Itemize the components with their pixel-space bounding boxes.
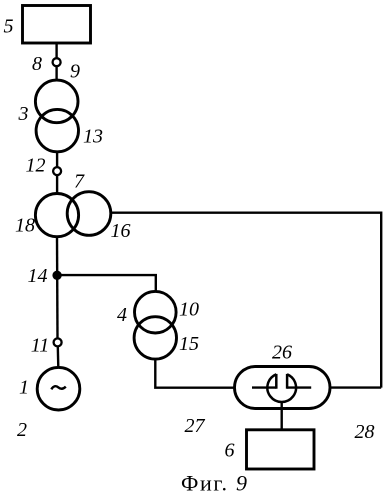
svg-text:4: 4 xyxy=(117,304,127,326)
svg-text:Фиг.: Фиг. xyxy=(181,471,229,496)
arrester electrode bar left xyxy=(275,374,278,389)
transformer winding 13 xyxy=(36,109,78,151)
arrester 26 envelope xyxy=(235,367,331,409)
svg-text:26: 26 xyxy=(272,342,292,364)
svg-text:8: 8 xyxy=(32,53,42,75)
transformer winding 15 xyxy=(134,317,176,359)
svg-text:18: 18 xyxy=(15,215,35,237)
svg-text:14: 14 xyxy=(28,265,48,287)
svg-text:15: 15 xyxy=(179,333,199,355)
wire xyxy=(155,359,234,388)
svg-text:16: 16 xyxy=(111,220,131,242)
wire xyxy=(55,66,57,80)
wire xyxy=(55,43,57,58)
isolator node 8-9 xyxy=(53,58,61,66)
svg-text:7: 7 xyxy=(74,171,85,193)
svg-text:10: 10 xyxy=(179,299,199,321)
wire xyxy=(56,237,59,339)
wire xyxy=(56,175,58,194)
svg-text:2: 2 xyxy=(17,419,27,441)
svg-text:27: 27 xyxy=(185,415,206,437)
AC source 1 xyxy=(37,367,80,410)
svg-text:6: 6 xyxy=(225,440,235,462)
svg-text:3: 3 xyxy=(18,103,29,125)
svg-text:13: 13 xyxy=(83,126,103,148)
svg-text:12: 12 xyxy=(26,155,46,177)
transformer winding 18 xyxy=(35,194,78,237)
isolator node 11 xyxy=(54,338,62,346)
svg-text:9: 9 xyxy=(236,471,247,496)
arrester electrode bar right xyxy=(286,374,289,389)
block 6 xyxy=(247,430,315,469)
svg-text:1: 1 xyxy=(19,377,29,399)
transformer winding 3 xyxy=(35,80,78,123)
svg-text:9: 9 xyxy=(70,61,80,83)
svg-text:28: 28 xyxy=(355,421,375,443)
arrester stem to block 6 xyxy=(281,402,283,430)
svg-text:11: 11 xyxy=(31,335,50,357)
wire xyxy=(57,275,156,292)
transformer winding 4-10 xyxy=(135,291,177,333)
wire xyxy=(57,346,60,367)
junction node 14 xyxy=(53,272,60,279)
transformer winding 16 xyxy=(67,192,111,236)
svg-text:5: 5 xyxy=(4,16,14,38)
isolator node 12 xyxy=(53,167,61,175)
arrester electrode lead left xyxy=(252,386,276,388)
block 5 xyxy=(23,6,91,44)
arrester bulb arc xyxy=(267,374,296,402)
wire xyxy=(56,152,58,167)
arrester electrode lead right xyxy=(287,386,311,388)
wire xyxy=(330,386,381,388)
wire 28 run from winding 16 to arrester xyxy=(111,213,381,388)
